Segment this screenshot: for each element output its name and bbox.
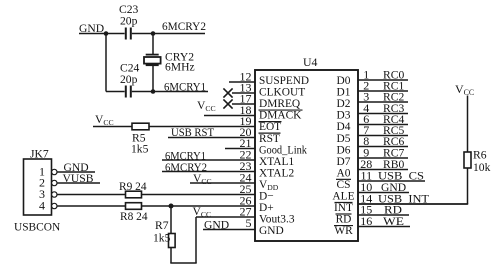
svg-text:USB RST: USB RST [171,127,214,139]
wire R6 to USB_INT pin14 [467,168,469,204]
wire junction down to R7 [170,206,172,234]
svg-text:VCC: VCC [193,205,212,219]
svg-text:20p: 20p [120,15,138,28]
svg-text:D1: D1 [337,87,351,99]
junction crystal bottom [151,89,156,94]
svg-text:U4: U4 [303,55,318,69]
svg-text:RST: RST [259,133,280,145]
svg-text:10k: 10k [473,161,491,174]
wire pin18 DMACK to VCC [204,115,255,117]
svg-text:D4: D4 [337,121,351,133]
svg-text:R8 24: R8 24 [120,211,148,223]
wire R5 to pin19 [149,126,255,128]
resistor R9 24 [126,191,142,198]
svg-text:6MCRY2: 6MCRY2 [162,20,206,33]
svg-text:WR: WR [334,225,353,237]
svg-text:1k5: 1k5 [153,232,171,245]
svg-text:XTAL1: XTAL1 [259,156,294,168]
svg-text:SUSPEND: SUSPEND [259,75,309,87]
resistor R6 10k [464,152,471,168]
svg-text:D3: D3 [337,110,351,122]
wire D+ net (JK7 pin4 to U4 pin26) [57,205,255,207]
svg-text:R6: R6 [473,149,487,162]
svg-text:16: 16 [360,214,372,228]
svg-text:VCC: VCC [193,172,212,186]
wire D- net (JK7 pin3 to U4 pin25) [57,194,255,196]
no-connect X pin13 [223,88,232,97]
wire pin20 RST net [168,137,255,139]
svg-text:Vout3.3: Vout3.3 [259,214,295,226]
wire left vertical (GND to C24) [105,34,107,92]
svg-text:ALE: ALE [332,191,354,203]
svg-text:USBCON: USBCON [14,222,60,234]
svg-text:DMACK: DMACK [259,110,302,122]
svg-text:CLKOUT: CLKOUT [259,87,305,99]
svg-text:4: 4 [39,198,45,212]
wire crystal vertical top [152,34,154,55]
svg-text:INT: INT [334,202,353,214]
svg-text:6MHz: 6MHz [165,61,195,74]
wire pin23 XTAL2 net [162,171,255,173]
resistor R5 1k5 [132,123,149,130]
svg-text:R7: R7 [155,219,169,232]
wire pin24 VDD net [190,182,255,184]
svg-text:RD: RD [336,214,352,226]
svg-text:DMREQ: DMREQ [259,98,301,110]
svg-text:6MCRY1: 6MCRY1 [164,81,206,94]
resistor R8 24 [126,203,142,210]
crystal CRY2 6MHz [146,54,159,56]
wire bottom 6MCRY1 rail [106,91,125,93]
wire pin13 stub (no connect) [232,92,255,94]
svg-text:VCC: VCC [95,113,114,127]
wire R7 bottom loop to pin27 [170,248,172,264]
op IC U4 body [255,70,358,241]
svg-text:5: 5 [246,216,252,230]
svg-text:VUSB: VUSB [63,172,94,185]
wire JK7 pin2 VUSB stub [57,182,100,184]
wire JK7 pin1 GND stub [57,171,95,173]
wire pin17 stub (no connect) [232,103,255,105]
svg-text:XTAL2: XTAL2 [259,167,294,179]
svg-text:CS: CS [337,179,351,191]
wire pin12 stub [229,81,255,83]
no-connect X pin17 [223,99,232,108]
svg-text:D+: D+ [259,202,274,214]
wire pin22 XTAL1 net [162,159,255,161]
junction left top [104,31,109,36]
wire top 6MCRY2 rail [79,33,125,35]
svg-text:D7: D7 [337,156,351,168]
junction D+ / R7 [169,204,174,209]
svg-text:D2: D2 [337,98,351,110]
svg-text:GND: GND [259,225,284,237]
svg-text:VCC: VCC [455,82,474,97]
svg-text:D0: D0 [337,75,351,87]
wire pin21 stub [225,148,255,150]
svg-text:VCC: VCC [197,99,216,113]
wire VCC down to R6 [467,96,469,153]
svg-text:1k5: 1k5 [131,143,149,156]
svg-text:D5: D5 [337,133,351,145]
svg-text:EOT: EOT [259,121,281,133]
wire crystal vertical bottom [152,65,154,91]
svg-text:Good_Link: Good_Link [259,144,307,156]
resistor R7 1k5 [169,234,176,248]
svg-text:R9 24: R9 24 [119,181,147,193]
svg-text:20p: 20p [120,73,138,86]
wire VCC to R5 [93,126,132,128]
svg-text:D6: D6 [337,144,351,156]
svg-text:D−: D− [259,191,274,203]
wire pin5 GND net [203,229,255,231]
svg-text:A0: A0 [337,167,351,179]
svg-text:GND: GND [204,219,229,232]
svg-text:WE: WE [383,215,404,228]
junction crystal top [151,31,156,36]
